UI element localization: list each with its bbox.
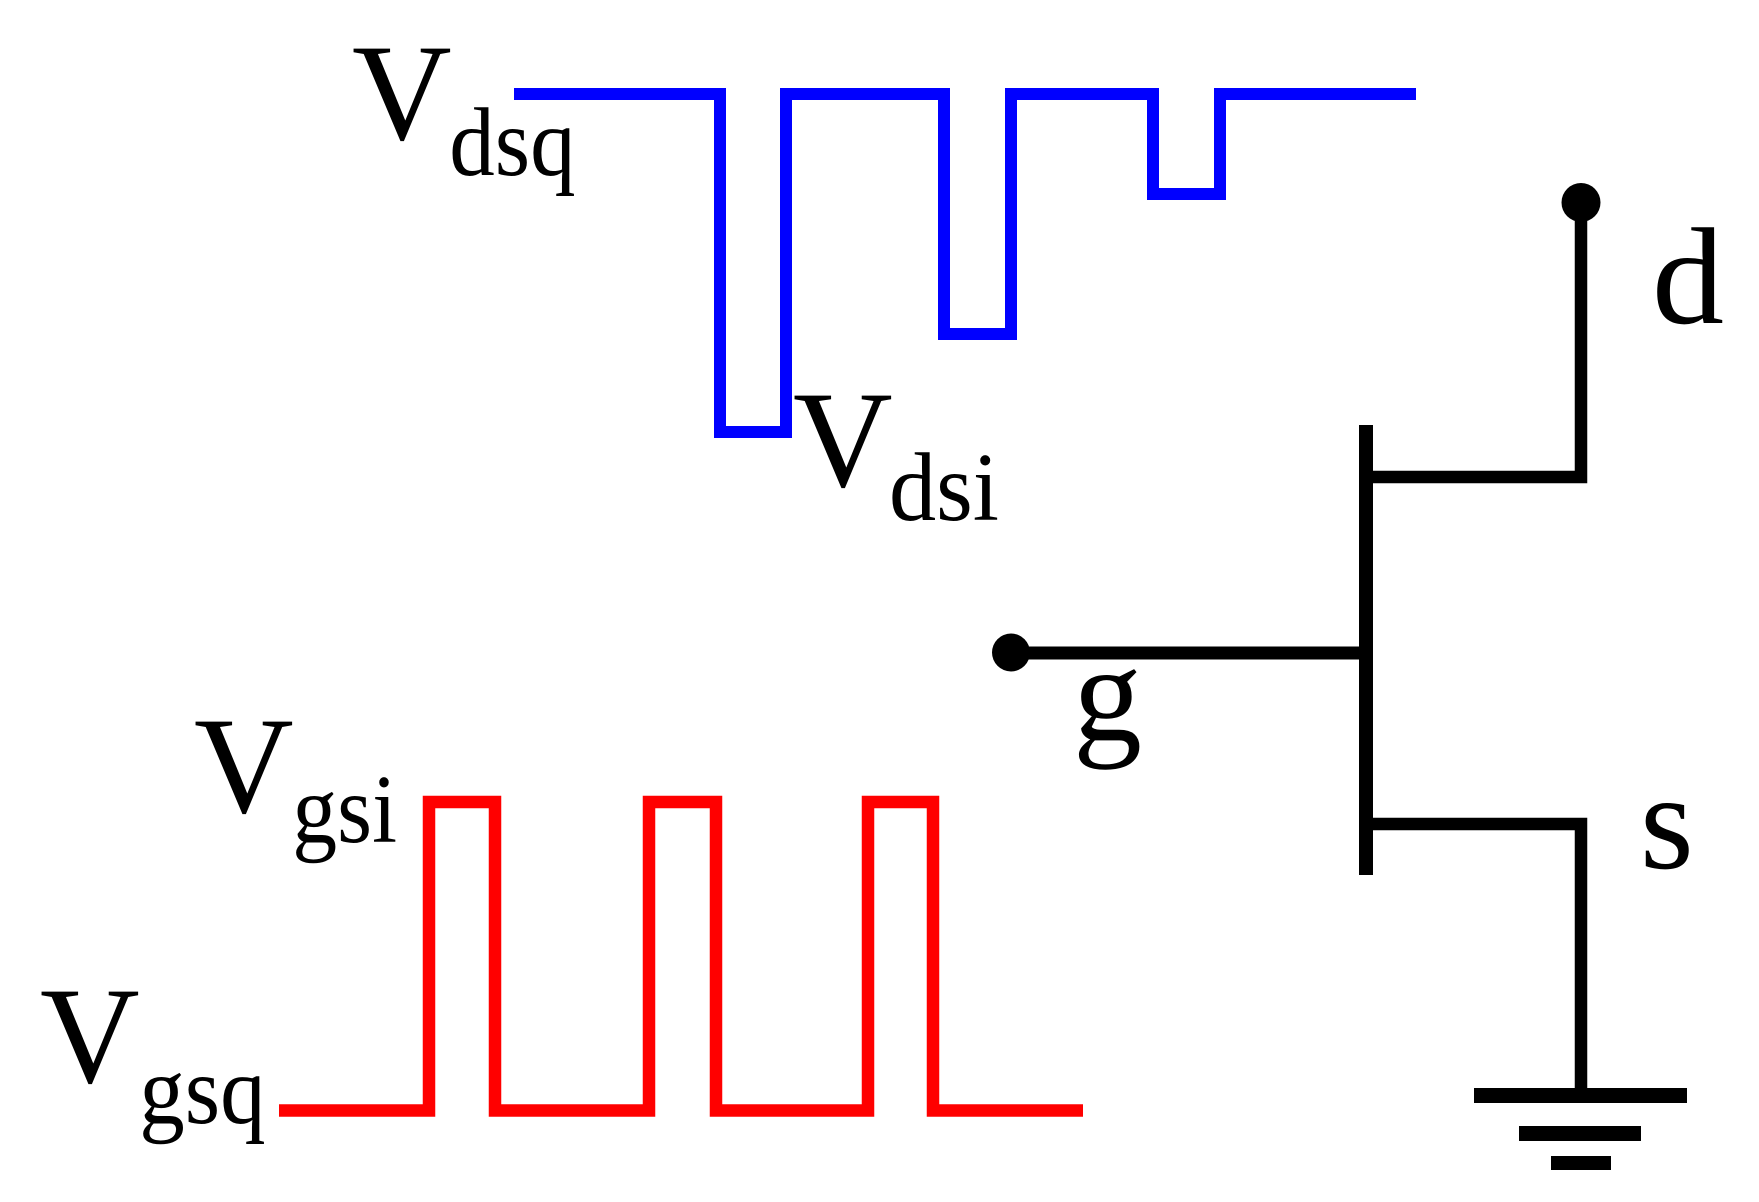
svg-text:V: V [352, 16, 452, 169]
svg-text:g: g [1073, 617, 1142, 770]
svg-text:d: d [1652, 200, 1724, 353]
svg-text:dsq: dsq [449, 89, 575, 196]
svg-text:gsi: gsi [292, 756, 397, 863]
svg-text:gsq: gsq [139, 1037, 265, 1144]
svg-text:V: V [793, 363, 893, 516]
svg-text:dsi: dsi [889, 434, 999, 541]
svg-text:V: V [194, 689, 294, 842]
svg-text:V: V [40, 959, 140, 1112]
svg-text:s: s [1640, 745, 1694, 898]
